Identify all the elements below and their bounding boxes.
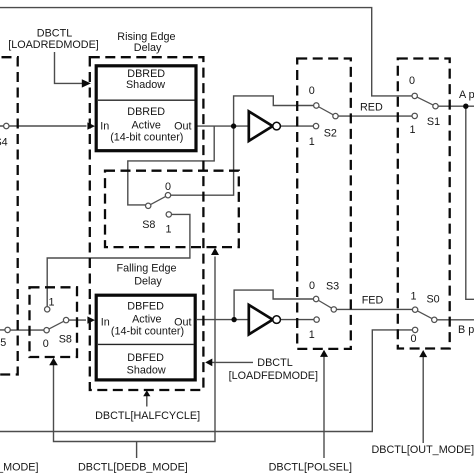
switch S2 common — [333, 113, 338, 118]
wire S8a contact 0 up to node at U1 input — [171, 126, 234, 195]
switch S2 contact 1 — [313, 123, 318, 128]
wire DBCTL[OUT_MODE] stem — [422, 357, 424, 443]
svg-text:S8: S8 — [59, 334, 72, 346]
svg-text:Active: Active — [131, 120, 160, 132]
switch S1 contact 0 — [412, 93, 417, 98]
svg-text:S1: S1 — [427, 116, 440, 128]
wire DBCTL[LOADREDMODE] stem — [55, 52, 84, 83]
wire DBCTL[HALFCYCLE] stem — [146, 396, 148, 407]
wire bottom rail A-crossover to S0 input 0 — [0, 330, 412, 432]
switch S3 contact 0 — [313, 296, 318, 301]
svg-text:1: 1 — [48, 296, 54, 308]
switch S0 contact 0 — [412, 327, 417, 332]
svg-text:1: 1 — [410, 290, 416, 302]
dashed box DBCTL[IN_MODE] around S4 S5 — [0, 57, 18, 374]
wire S8a contact 1 down to S8b contact 1 — [47, 214, 190, 306]
arrowhead DBCTL[LOADREDMODE] — [82, 79, 91, 87]
svg-text:DBCTL: DBCTL — [37, 28, 72, 40]
switch S0 arm — [415, 310, 434, 320]
block DBRED counter — [96, 66, 196, 151]
svg-text:[LOADREDMODE]: [LOADREDMODE] — [8, 39, 99, 51]
wire DBCTL[POLSEL] stem — [323, 357, 325, 459]
svg-text:DBCTL[POLSEL]: DBCTL[POLSEL] — [269, 462, 352, 474]
svg-text:(14-bit counter): (14-bit counter) — [110, 132, 183, 144]
switch S5 contact — [5, 327, 10, 332]
svg-text:DBCTL[IN_MODE]: DBCTL[IN_MODE] — [0, 462, 39, 474]
wire node up-over to S2 contact 0 — [234, 96, 314, 126]
wire branch DBRED Out down to S8a pivot — [128, 126, 214, 205]
switch S8a pivot — [146, 203, 151, 208]
switch S2 contact 0 — [314, 103, 319, 108]
dashed box S8a half-cycle — [105, 171, 239, 247]
wire S5 to S8b pivot — [0, 329, 44, 331]
switch S0 common — [432, 317, 437, 322]
svg-text:1: 1 — [309, 136, 315, 148]
node junction dot U1 input — [231, 123, 236, 128]
wire A-path output and crossover down to right edge — [438, 106, 474, 299]
svg-text:(14-bit counter): (14-bit counter) — [111, 326, 184, 338]
wire DBCTL[DEDB_MODE] bus and stems — [54, 257, 216, 459]
node junction dot A path — [463, 104, 468, 109]
svg-text:Delay: Delay — [134, 275, 162, 287]
wire FED from S3 common to S0 contact 1 — [336, 308, 412, 310]
switch S8a contact 0 — [165, 193, 170, 198]
divider DBFED active/shadow — [98, 343, 194, 345]
svg-text:FED: FED — [362, 295, 384, 307]
svg-text:DBFED: DBFED — [127, 352, 164, 364]
switch S8a contact 1 — [166, 212, 171, 217]
switch S8a arm — [148, 195, 168, 206]
svg-text:1: 1 — [165, 224, 171, 236]
svg-text:S2: S2 — [324, 128, 337, 140]
svg-text:DBCTL[HALFCYCLE]: DBCTL[HALFCYCLE] — [95, 410, 200, 422]
svg-text:0: 0 — [43, 338, 49, 350]
wire DBFED Out to inverter U2 input — [197, 319, 248, 321]
switch S1 contact 1 — [412, 113, 417, 118]
switch S1 common — [433, 104, 438, 109]
switch S3 contact 1 — [314, 317, 319, 322]
switch S2 arm — [316, 106, 335, 117]
U2 bubble — [273, 316, 281, 324]
op-amp U2 inverter — [249, 305, 273, 335]
arrowhead DBCTL[HALFCYCLE] — [143, 390, 150, 396]
arrowhead DBCTL[DEDB_MODE] left — [49, 358, 58, 365]
wire node up-over to S3 contact 0 — [234, 290, 313, 320]
op-amp U1 inverter — [249, 111, 273, 140]
svg-text:0: 0 — [410, 333, 416, 345]
arrowhead DBCTL[DEDB_MODE] right — [211, 248, 219, 255]
switch S3 common — [331, 307, 336, 312]
wire S4 to DBRED In — [0, 125, 87, 127]
svg-text:0: 0 — [409, 75, 415, 87]
svg-text:0: 0 — [165, 181, 171, 193]
svg-text:S0: S0 — [426, 294, 439, 306]
svg-text:RED: RED — [360, 102, 383, 114]
arrowhead DBCTL[OUT_MODE] — [419, 350, 427, 357]
svg-text:DBRED: DBRED — [127, 106, 165, 118]
svg-text:In: In — [101, 316, 110, 328]
svg-text:A path: A path — [459, 89, 474, 101]
arrowhead DBCTL[POLSEL] — [320, 350, 328, 357]
svg-text:0: 0 — [309, 85, 315, 97]
svg-text:DBFED: DBFED — [127, 301, 164, 313]
dashed box delay blocks (rising+falling) — [90, 57, 204, 390]
svg-text:S3: S3 — [326, 281, 339, 293]
wire U2 bubble to S3 contact 1 — [281, 319, 314, 321]
svg-text:Shadow: Shadow — [127, 365, 166, 377]
switch S8b arm — [47, 320, 67, 330]
switch S0 contact 1 — [412, 307, 417, 312]
svg-text:DBCTL: DBCTL — [257, 357, 292, 369]
dashed box S8b half-cycle — [30, 287, 78, 357]
svg-text:Falling Edge: Falling Edge — [116, 263, 176, 275]
divider DBRED shadow/active — [98, 99, 195, 101]
switch S3 arm — [316, 299, 334, 309]
svg-text:DBCTL[OUT_MODE]: DBCTL[OUT_MODE] — [372, 444, 474, 456]
wire S8b output to DBFED In — [69, 319, 86, 321]
switch S4 contact — [4, 123, 9, 128]
wire RED from S2 common to S1 contact 1 — [338, 115, 412, 117]
wire DBRED Out to inverter U1 input — [197, 125, 248, 127]
switch S8b output contact — [63, 317, 68, 322]
svg-text:[LOADFEDMODE]: [LOADFEDMODE] — [229, 370, 318, 382]
dashed box DBCTL[OUT_MODE] around S1 S0 — [398, 59, 450, 349]
wire S0 common to B path output — [437, 319, 474, 321]
arrowhead DBCTL[LOADFEDMODE] — [205, 359, 212, 367]
wire U1 bubble to S2 contact 1 — [280, 125, 313, 127]
U1 bubble — [273, 122, 281, 130]
svg-text:0: 0 — [309, 280, 315, 292]
arrowhead into DBFED In — [87, 316, 95, 323]
wire top rail B-crossover to S1 input 0 — [0, 8, 412, 96]
svg-text:S4: S4 — [0, 137, 8, 149]
svg-text:S5: S5 — [0, 337, 6, 349]
block DBFED counter — [96, 295, 195, 380]
switch S1 arm — [415, 96, 436, 106]
wire DBCTL[LOADFEDMODE] stem — [212, 361, 254, 363]
svg-text:S8: S8 — [142, 219, 155, 231]
svg-text:Delay: Delay — [134, 42, 162, 54]
switch S8b pivot — [44, 328, 49, 333]
switch S8b contact 1 — [45, 307, 50, 312]
node junction dot U2 input — [231, 317, 236, 322]
svg-text:B path: B path — [458, 324, 474, 336]
svg-text:DBCTL[DEDB_MODE]: DBCTL[DEDB_MODE] — [78, 462, 188, 474]
svg-text:1: 1 — [409, 124, 415, 136]
dashed box DBCTL[POLSEL] around S2 S3 — [297, 59, 351, 349]
svg-text:In: In — [100, 120, 109, 132]
svg-text:1: 1 — [309, 329, 315, 341]
svg-text:Active: Active — [132, 314, 161, 326]
arrowhead into DBRED In — [87, 122, 95, 129]
svg-text:Shadow: Shadow — [126, 79, 165, 91]
